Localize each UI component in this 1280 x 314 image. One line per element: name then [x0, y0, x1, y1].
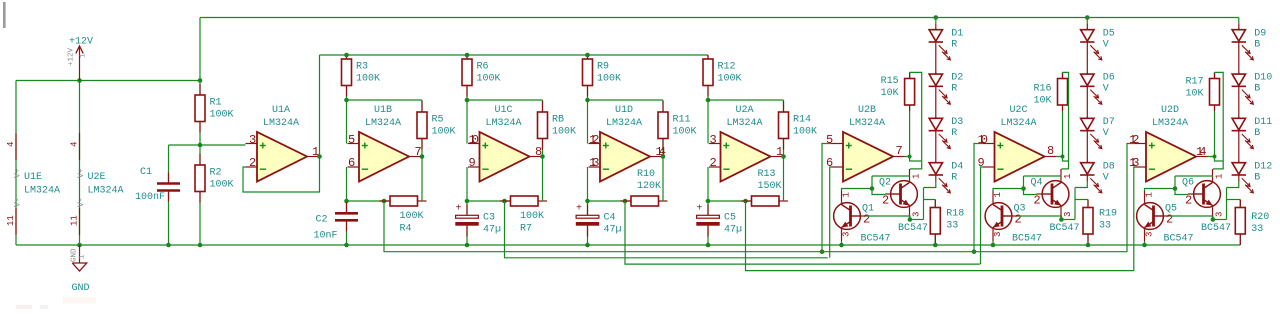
svg-text:3: 3 — [710, 133, 717, 147]
LED D9 — [1232, 28, 1267, 60]
op-amp U2C — [983, 105, 1056, 182]
node C5 top — [706, 199, 711, 204]
svg-text:D7: D7 — [1103, 117, 1115, 128]
op-amp U2E power pins — [70, 133, 124, 235]
pin 7 U2B — [896, 144, 903, 158]
node R9 bottom — [585, 98, 590, 103]
svg-text:33: 33 — [946, 221, 958, 232]
wire Q3 collector net — [993, 176, 1061, 195]
svg-text:V: V — [1103, 39, 1109, 50]
resistor R19 — [1083, 200, 1117, 246]
wire Q4 emitter to R19 — [1061, 188, 1088, 220]
svg-text:R: R — [951, 172, 957, 183]
svg-text:C5: C5 — [724, 213, 736, 224]
svg-text:D12: D12 — [1254, 161, 1272, 172]
pin 13 U1D — [589, 156, 599, 170]
svg-text:3: 3 — [993, 232, 1003, 237]
node U2A feedback tap — [743, 199, 748, 204]
wire +12V top rail — [200, 17, 1239, 19]
wire U1B node to comparator — [384, 201, 1127, 252]
svg-text:LM324A: LM324A — [726, 118, 762, 129]
node Q3 emitter — [991, 243, 996, 248]
svg-text:9: 9 — [469, 156, 476, 170]
wire V+ feed vertical — [199, 18, 201, 81]
pin 6 U1B — [348, 156, 355, 170]
LED D7 — [1080, 117, 1115, 149]
wire U2B output — [905, 157, 922, 162]
svg-text:V-: V- — [77, 197, 86, 207]
svg-text:R6: R6 — [477, 61, 489, 72]
svg-text:+: + — [576, 204, 582, 215]
svg-text:100K: 100K — [793, 127, 817, 138]
svg-text:100K: 100K — [552, 127, 576, 138]
node U2D output — [1213, 155, 1217, 159]
svg-text:LM324A: LM324A — [849, 118, 885, 129]
svg-text:8: 8 — [1047, 144, 1054, 158]
svg-text:LM324A: LM324A — [1000, 118, 1036, 129]
LED D10 — [1232, 73, 1273, 105]
wire U2B minus input — [830, 167, 832, 258]
svg-text:10K: 10K — [1185, 89, 1203, 100]
svg-text:R2: R2 — [210, 167, 222, 178]
wire LED column 1 to emitter net — [924, 175, 936, 188]
svg-text:BC547: BC547 — [861, 234, 891, 245]
svg-text:D6: D6 — [1103, 73, 1115, 84]
svg-text:U2C: U2C — [1009, 105, 1027, 116]
svg-text:10: 10 — [978, 133, 988, 147]
wire U2A node to comparator — [746, 201, 1134, 271]
node U1B feedback tap — [382, 199, 387, 204]
svg-text:GND: GND — [71, 248, 79, 262]
pin 8 U2C — [1047, 144, 1054, 158]
wire U1B plus input — [346, 100, 348, 144]
capacitor C2 — [314, 201, 359, 245]
pin 14 U1D — [656, 145, 666, 159]
svg-text:U2E: U2E — [88, 172, 106, 183]
svg-text:B: B — [1254, 128, 1260, 139]
svg-text:RB: RB — [552, 114, 564, 125]
svg-text:9: 9 — [978, 156, 985, 170]
wire U2D output — [1208, 157, 1224, 162]
transistor Q1 — [834, 191, 891, 245]
svg-text:5: 5 — [348, 133, 355, 147]
wire Q3 base — [1018, 216, 1062, 220]
svg-text:1: 1 — [1215, 174, 1225, 179]
svg-text:R16: R16 — [1033, 84, 1051, 95]
wire D10 cathode — [1238, 86, 1240, 118]
LED D8 — [1080, 161, 1115, 193]
op-amp U2A — [709, 105, 782, 182]
pin 10 U1C — [469, 133, 479, 147]
svg-text:V: V — [1103, 84, 1109, 95]
resistor R2 — [195, 145, 234, 245]
node +12V junction — [77, 78, 82, 83]
pin 8 U1C — [535, 145, 542, 159]
resistor R4 — [380, 157, 427, 235]
op-amp U1B — [348, 105, 421, 182]
svg-text:R14: R14 — [793, 114, 811, 125]
svg-text:120K: 120K — [637, 181, 661, 192]
svg-text:R: R — [951, 84, 957, 95]
pin 10 U2C — [978, 133, 988, 147]
resistor R16 — [1033, 72, 1067, 156]
wire Q1 base — [866, 216, 910, 220]
node R6 bottom — [465, 98, 470, 103]
wire D6 cathode — [1086, 86, 1088, 118]
node R2 bottom — [198, 243, 203, 248]
svg-text:100K: 100K — [356, 74, 380, 85]
capacitor C3 — [455, 201, 501, 245]
svg-text:2: 2 — [863, 213, 870, 227]
svg-text:150K: 150K — [758, 181, 782, 192]
svg-text:LM324A: LM324A — [24, 186, 60, 197]
svg-text:U1E: U1E — [24, 172, 42, 183]
svg-text:V+: V+ — [14, 168, 23, 178]
node C1 top — [198, 143, 203, 148]
wire U1D plus input — [587, 100, 589, 144]
svg-text:D11: D11 — [1254, 117, 1272, 128]
svg-text:2: 2 — [710, 156, 717, 170]
svg-text:10nF: 10nF — [314, 231, 338, 242]
svg-text:100K: 100K — [718, 74, 742, 85]
svg-text:LM324A: LM324A — [365, 118, 401, 129]
svg-text:3: 3 — [1145, 232, 1155, 237]
wire U1C minus node — [467, 200, 511, 202]
node R18 bottom — [933, 243, 938, 248]
node R3 top — [344, 53, 349, 58]
svg-text:+12V: +12V — [69, 37, 93, 48]
svg-text:R18: R18 — [946, 209, 964, 220]
pin 3 U2A — [710, 133, 717, 147]
svg-text:11: 11 — [6, 215, 16, 226]
svg-text:R17: R17 — [1185, 77, 1203, 88]
svg-text:100K: 100K — [400, 211, 424, 222]
pin 13 U2D — [1129, 156, 1139, 170]
node U1B output — [420, 154, 425, 159]
svg-text:LM324A: LM324A — [1152, 118, 1188, 129]
wire top-left horizontal — [16, 80, 200, 82]
resistor R17 — [1185, 72, 1219, 156]
wire U1B minus node — [347, 200, 391, 202]
wire D5 cathode — [1086, 42, 1088, 74]
svg-text:1: 1 — [842, 192, 852, 197]
node U1A output — [317, 154, 322, 159]
wire LED column 2 anode feed — [1086, 18, 1088, 30]
node Q4 emitter — [1059, 217, 1064, 222]
capacitor C1 — [135, 145, 180, 245]
resistor R5 — [417, 100, 456, 157]
svg-text:LM324A: LM324A — [263, 118, 299, 129]
svg-text:R12: R12 — [718, 61, 736, 72]
node C4 bottom — [585, 243, 590, 248]
node C1 bottom — [166, 243, 171, 248]
svg-text:C1: C1 — [140, 167, 152, 178]
node U2C output — [1061, 155, 1065, 159]
svg-text:BC547: BC547 — [898, 223, 928, 234]
svg-text:U1C: U1C — [494, 105, 512, 116]
wire U1D node to comparator — [625, 201, 980, 264]
node LED column 2 top — [1085, 15, 1090, 20]
wire D1 cathode — [935, 42, 937, 74]
svg-text:V+: V+ — [77, 168, 86, 178]
svg-text:BC547: BC547 — [1012, 234, 1042, 245]
svg-text:BC547: BC547 — [1164, 234, 1194, 245]
svg-text:1: 1 — [912, 174, 922, 179]
svg-text:100K: 100K — [597, 74, 621, 85]
pin 6 U2B — [826, 156, 833, 170]
node C2 bottom — [344, 243, 349, 248]
transistor Q4 — [1031, 169, 1080, 234]
transistor Q6 — [1182, 169, 1231, 234]
node U1D feedback tap — [623, 199, 628, 204]
resistor R6 — [462, 55, 501, 100]
svg-text:2: 2 — [1034, 194, 1041, 208]
svg-text:6: 6 — [826, 156, 833, 170]
wire U1A output to bias rail — [319, 55, 321, 157]
resistor R14 — [779, 100, 818, 157]
svg-text:D9: D9 — [1254, 28, 1266, 39]
resistor R1 — [195, 81, 234, 146]
svg-text:13: 13 — [589, 156, 599, 170]
resistor RB — [538, 100, 577, 157]
pin 12 U2D — [1129, 133, 1139, 147]
pin 3 U1A — [249, 133, 256, 147]
wire LED column 3 to emitter net — [1227, 175, 1239, 188]
transistor Q3 — [985, 191, 1042, 245]
svg-text:U2B: U2B — [858, 105, 876, 116]
pin 14 U2D — [1196, 145, 1206, 159]
node C5 bottom — [706, 243, 711, 248]
svg-text:14: 14 — [1196, 145, 1206, 159]
node R9 top — [585, 53, 590, 58]
svg-text:+: + — [456, 204, 462, 215]
node U2B output — [908, 155, 912, 159]
svg-text:R3: R3 — [356, 61, 368, 72]
wire R15 top jog — [910, 72, 922, 168]
node R19 bottom — [1086, 243, 1091, 248]
wire U2D plus input — [1127, 144, 1135, 252]
pin 2 U2A — [710, 156, 717, 170]
op-amp U1C — [468, 105, 541, 182]
svg-text:BC547: BC547 — [1201, 223, 1231, 234]
op-amp U1D — [589, 105, 662, 182]
svg-text:100K: 100K — [477, 74, 501, 85]
svg-text:4: 4 — [70, 142, 80, 147]
svg-text:D3: D3 — [951, 117, 963, 128]
LED D1 — [929, 28, 964, 60]
LED D3 — [929, 117, 964, 149]
svg-text:13: 13 — [1129, 156, 1139, 170]
svg-text:100K: 100K — [210, 110, 234, 121]
svg-text:R19: R19 — [1099, 209, 1117, 220]
wire U1C plus input — [466, 100, 468, 144]
wire U1D minus node — [588, 200, 632, 202]
svg-text:100K: 100K — [210, 180, 234, 191]
wire D7 cathode — [1086, 131, 1088, 163]
wire left rail — [15, 81, 17, 246]
LED D11 — [1232, 117, 1273, 149]
node R6 top — [465, 53, 470, 58]
wire Q3 emitter — [992, 241, 994, 245]
node C3 top — [465, 199, 470, 204]
node U1D output — [661, 154, 666, 159]
wire U1C plus node — [467, 99, 543, 101]
node Q1 collector — [870, 186, 875, 191]
svg-text:1: 1 — [993, 192, 1003, 197]
svg-text:U1D: U1D — [615, 105, 633, 116]
node Q5 collector — [1173, 186, 1178, 191]
svg-text:D1: D1 — [951, 28, 963, 39]
svg-text:D10: D10 — [1254, 73, 1272, 84]
resistor R18 — [930, 200, 964, 246]
wire U1B minus input — [346, 167, 348, 201]
wire Q6 emitter to R20 — [1213, 188, 1240, 220]
node LED column 1 top — [934, 15, 939, 20]
power +12V — [68, 37, 94, 81]
svg-text:2: 2 — [1166, 213, 1173, 227]
svg-text:R13: R13 — [758, 169, 776, 180]
svg-text:1: 1 — [1063, 174, 1073, 179]
wire U1D minus input — [587, 167, 589, 201]
svg-text:LM324A: LM324A — [88, 186, 124, 197]
svg-text:GND: GND — [71, 283, 89, 294]
node U1C output — [540, 154, 545, 159]
svg-text:4: 4 — [6, 142, 16, 147]
node U2A output — [781, 154, 786, 159]
resistor R15 — [881, 72, 915, 156]
wire LED column 3 anode feed — [1238, 18, 1240, 30]
svg-text:12: 12 — [589, 133, 599, 147]
wire U1C minus input — [466, 167, 468, 201]
svg-text:V: V — [1103, 128, 1109, 139]
wire U2C minus input — [981, 167, 984, 264]
svg-text:R4: R4 — [400, 224, 412, 235]
svg-text:+: + — [697, 204, 703, 215]
svg-text:100K: 100K — [520, 211, 544, 222]
wire LED column 2 to emitter net — [1075, 175, 1087, 188]
svg-text:C2: C2 — [316, 215, 328, 226]
svg-text:2: 2 — [1015, 213, 1022, 227]
pin 1 U1A — [312, 145, 319, 159]
svg-text:5: 5 — [826, 133, 833, 147]
node Q6 emitter — [1211, 217, 1216, 222]
wire bias rail — [320, 54, 709, 56]
svg-text:R20: R20 — [1251, 212, 1269, 223]
wire D11 cathode — [1238, 131, 1240, 163]
svg-text:6: 6 — [348, 156, 355, 170]
resistor R20 — [1235, 200, 1269, 246]
svg-text:100nF: 100nF — [135, 192, 165, 203]
wire D9 cathode — [1238, 42, 1240, 74]
op-amp U1E power pins — [6, 133, 60, 235]
node C4 top — [585, 199, 590, 204]
wire R17 top jog — [1213, 72, 1223, 168]
pin 2 U1A — [249, 156, 256, 170]
op-amp U1A — [246, 105, 319, 182]
svg-text:1: 1 — [1145, 192, 1155, 197]
svg-text:R15: R15 — [881, 76, 899, 87]
transistor Q2 — [879, 169, 928, 234]
svg-text:3: 3 — [912, 212, 922, 217]
svg-text:R10: R10 — [637, 169, 655, 180]
wire U1B plus node — [347, 99, 423, 101]
wire Q5 base — [1169, 216, 1213, 220]
svg-text:R9: R9 — [597, 61, 609, 72]
svg-text:D8: D8 — [1103, 161, 1115, 172]
svg-text:33: 33 — [1099, 221, 1111, 232]
svg-text:LM324A: LM324A — [606, 118, 642, 129]
resistor R12 — [703, 55, 742, 100]
pin 1 U2A — [776, 145, 783, 159]
svg-text:47µ: 47µ — [483, 225, 501, 236]
svg-text:2: 2 — [882, 194, 889, 208]
node R3 bottom — [344, 98, 349, 103]
node ground-rail U2E junction — [77, 243, 82, 248]
svg-text:1: 1 — [79, 255, 87, 259]
svg-text:D5: D5 — [1103, 28, 1115, 39]
pin 9 U2C — [978, 156, 985, 170]
wire U2C output — [1056, 157, 1069, 162]
node C3 bottom — [465, 243, 470, 248]
pin 7 U1B — [415, 145, 422, 159]
svg-text:3: 3 — [1063, 212, 1073, 217]
svg-text:3: 3 — [249, 133, 256, 147]
svg-text:R11: R11 — [673, 114, 691, 125]
svg-text:2: 2 — [249, 156, 256, 170]
op-amp U2B — [832, 105, 905, 182]
wire U2A plus node — [708, 99, 784, 101]
svg-text:U2A: U2A — [735, 105, 753, 116]
wire Q5 emitter — [1144, 241, 1146, 245]
svg-text:B: B — [1254, 39, 1260, 50]
ground — [71, 245, 90, 294]
svg-text:U1A: U1A — [272, 105, 290, 116]
svg-text:10K: 10K — [1033, 96, 1051, 107]
wire Q1 emitter — [841, 241, 843, 245]
resistor R10 — [621, 157, 668, 207]
svg-text:B: B — [1254, 84, 1260, 95]
wire Q2 emitter to R18 — [910, 188, 935, 220]
wire U2C plus input — [974, 144, 983, 252]
resistor R3 — [342, 55, 381, 100]
node Q5 emitter — [1142, 243, 1147, 248]
wire LED column 1 anode feed — [935, 18, 937, 30]
node U2C plus tap — [972, 249, 977, 254]
node Q3 collector — [1021, 186, 1026, 191]
resistor R13 — [741, 157, 788, 207]
node R12 bottom — [706, 98, 711, 103]
svg-text:11: 11 — [70, 215, 80, 226]
decor — [3, 2, 6, 28]
wire U2A minus node — [708, 200, 752, 202]
op-amp U2D — [1135, 105, 1208, 182]
svg-text:3: 3 — [1215, 212, 1225, 217]
wire Q5 collector net — [1145, 176, 1213, 195]
svg-text:D2: D2 — [951, 73, 963, 84]
svg-text:LM324A: LM324A — [485, 118, 521, 129]
pin 9 U1C — [469, 156, 476, 170]
transistor Q5 — [1137, 191, 1194, 245]
svg-text:R: R — [951, 128, 957, 139]
svg-text:Q2: Q2 — [879, 178, 891, 189]
pin 5 U2B — [826, 133, 833, 147]
svg-text:10: 10 — [469, 133, 479, 147]
wire U2A plus input — [707, 100, 709, 144]
capacitor C4 — [576, 201, 622, 245]
svg-text:100K: 100K — [673, 127, 697, 138]
decor — [16, 297, 96, 309]
svg-text:Q6: Q6 — [1182, 178, 1194, 189]
